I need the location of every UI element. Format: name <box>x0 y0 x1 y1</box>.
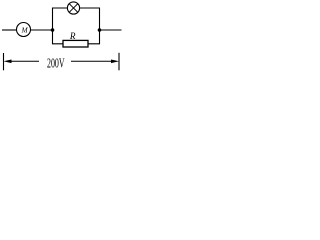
wire: lamp to right junction <box>80 8 100 30</box>
node: right junction <box>98 28 102 32</box>
svg-text:R: R <box>69 31 76 41</box>
lamp L <box>67 2 79 14</box>
wire: resistor to right junction <box>88 30 100 44</box>
dimension bar right <box>118 53 120 71</box>
resistor R <box>63 40 88 47</box>
node: left junction <box>51 28 55 32</box>
dimension arrow left <box>4 60 40 64</box>
dimension arrow right <box>71 60 119 64</box>
svg-text:M: M <box>21 26 29 34</box>
svg-text:200V: 200V <box>47 57 65 72</box>
motor M <box>17 23 31 37</box>
wire: left junction up to top branch <box>53 8 68 30</box>
wire: left lead from source to motor <box>2 29 17 31</box>
wire: left junction down to resistor <box>53 30 64 44</box>
dimension bar left <box>3 53 5 70</box>
wire: motor to left junction <box>31 29 53 31</box>
wire: right junction to right lead <box>100 29 122 31</box>
